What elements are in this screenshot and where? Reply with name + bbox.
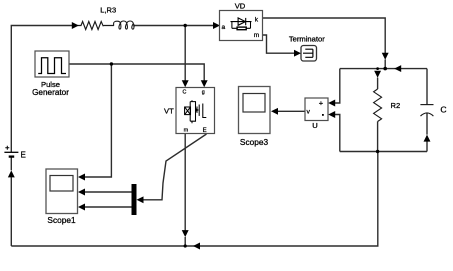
wire battery arrow to plate xyxy=(10,157,12,171)
scope1 block xyxy=(46,169,78,214)
wire C to arrow xyxy=(426,113,428,134)
wire VT m to mux xyxy=(143,134,207,200)
battery long plate xyxy=(4,151,18,153)
arrow into R2 xyxy=(374,71,381,78)
wire U to Scope3 xyxy=(278,110,306,112)
arrow into VT g port xyxy=(201,80,208,87)
wire U plus stub xyxy=(335,69,340,103)
svg-text:m: m xyxy=(184,128,189,134)
snubber right tick xyxy=(250,22,252,29)
voltage measurement block U xyxy=(305,98,328,121)
wire U minus stub xyxy=(335,115,340,152)
wire C branch top xyxy=(426,69,428,105)
wire VD m to terminator xyxy=(263,35,295,53)
battery plus sign xyxy=(5,146,9,150)
arrow mid k-wire xyxy=(382,53,389,60)
arrow battery up xyxy=(8,170,15,177)
junction node bottom rail xyxy=(376,150,379,153)
junction node on top wire xyxy=(184,24,187,27)
svg-text:v: v xyxy=(307,109,311,116)
arrow on bus xyxy=(193,243,200,250)
resistor R2 xyxy=(374,89,382,122)
arrow scope1 in2 xyxy=(78,189,85,196)
arrow into RL branch xyxy=(72,22,79,29)
terminator block xyxy=(301,46,317,62)
battery short plate xyxy=(9,155,15,157)
snubber left tick xyxy=(231,22,233,29)
arrow scope1 in1 xyxy=(78,174,85,181)
svg-text:+: + xyxy=(319,99,323,108)
svg-text:Scope1: Scope1 xyxy=(47,215,76,225)
junction node k-wire on rail xyxy=(383,67,387,71)
arrow into VD port a xyxy=(213,22,220,29)
wire pulse generator output xyxy=(69,64,204,81)
wire pulse junction down to Scope1 xyxy=(85,64,112,177)
svg-text:Scope3: Scope3 xyxy=(240,137,269,147)
wire left loop top xyxy=(11,26,72,153)
scope3 block xyxy=(239,87,271,134)
wire VD k arrow continue xyxy=(384,60,386,69)
wire mux out 2 xyxy=(85,206,132,208)
inductor L coils xyxy=(114,21,135,29)
IGBT icon xyxy=(185,100,207,123)
diode icon line xyxy=(231,21,252,23)
junction node on bus xyxy=(184,244,187,247)
wire bottom rail xyxy=(340,151,427,153)
svg-text:U: U xyxy=(312,121,317,130)
arrow on rail from C xyxy=(394,65,401,72)
junction node pulse wire xyxy=(110,62,113,65)
svg-text:g: g xyxy=(202,89,205,95)
svg-text:R2: R2 xyxy=(391,101,401,110)
wire mux out 1 xyxy=(85,191,132,193)
svg-text:C: C xyxy=(183,89,187,95)
wire VT emitter arrow to bus xyxy=(184,237,186,246)
arrow into terminator xyxy=(294,50,301,57)
svg-text:C: C xyxy=(440,105,446,115)
svg-text:Generator: Generator xyxy=(32,88,69,97)
wire VD k to rail xyxy=(263,18,386,53)
svg-text:L,R3: L,R3 xyxy=(100,5,116,14)
wire R2 bottom xyxy=(377,122,379,152)
svg-text:a: a xyxy=(222,24,226,31)
snubber resistor box xyxy=(237,27,246,30)
battery E source xyxy=(4,146,18,157)
IGBT block VT xyxy=(176,88,215,134)
wire R2 arrow to zigzag xyxy=(377,78,379,89)
arrow scope1 in3 xyxy=(78,204,85,211)
arrow into U minus xyxy=(328,111,335,118)
wire top rail xyxy=(340,68,427,70)
svg-text:VT: VT xyxy=(164,107,174,116)
diode cathode bar xyxy=(245,18,247,25)
arrow into U plus xyxy=(328,100,335,107)
mux bar xyxy=(132,184,137,215)
arrow into VT C port xyxy=(182,80,189,87)
wire bottom bus xyxy=(11,152,378,247)
arrow into scope3 xyxy=(271,108,278,115)
pulse generator block xyxy=(35,51,69,77)
arrow into C xyxy=(424,135,431,142)
capacitor C xyxy=(420,105,433,117)
wire junction to VT collector xyxy=(184,26,186,81)
wire C arrow to rail xyxy=(426,141,428,151)
resistor R3 zigzag xyxy=(72,22,114,30)
wire battery bottom xyxy=(10,177,12,246)
diode triangle xyxy=(238,18,245,25)
snubber line xyxy=(232,27,251,29)
wire VT emitter down xyxy=(184,134,186,231)
svg-text:m: m xyxy=(254,32,259,39)
arrow into mux xyxy=(137,196,144,203)
svg-text:Terminator: Terminator xyxy=(289,35,325,44)
wire resistor to VD xyxy=(134,25,214,27)
svg-text:E: E xyxy=(203,128,207,134)
svg-text:VD: VD xyxy=(235,1,246,10)
junction node R2 on rail xyxy=(376,67,379,70)
arrow VT emitter to bus xyxy=(182,230,189,237)
svg-text:E: E xyxy=(21,151,26,160)
diode block VD xyxy=(220,11,263,41)
